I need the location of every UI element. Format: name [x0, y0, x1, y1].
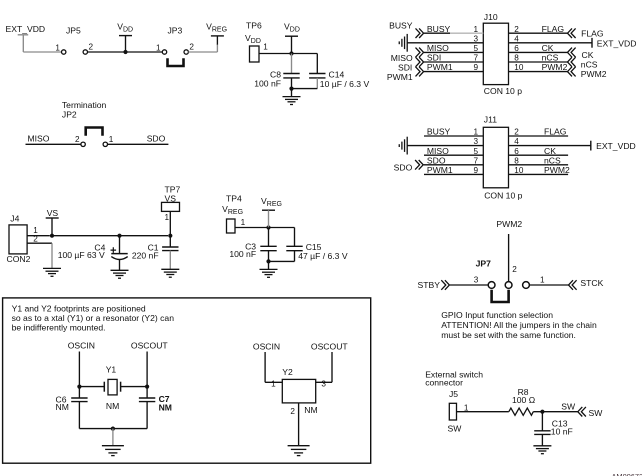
svg-text:6: 6 [514, 147, 519, 156]
svg-text:TP4: TP4 [226, 193, 242, 203]
svg-text:EXT_VDD: EXT_VDD [597, 38, 637, 48]
svg-text:BUSY: BUSY [389, 21, 413, 31]
svg-text:100 nF: 100 nF [229, 249, 256, 259]
svg-text:2: 2 [189, 43, 194, 52]
svg-text:PWM2: PWM2 [544, 165, 570, 175]
svg-text:47 µF / 6.3 V: 47 µF / 6.3 V [298, 251, 348, 261]
svg-text:Y1: Y1 [106, 364, 117, 374]
svg-text:STBY: STBY [418, 280, 441, 290]
svg-text:3: 3 [473, 137, 478, 146]
svg-text:JP7: JP7 [476, 258, 492, 268]
svg-text:EXT_VDD: EXT_VDD [6, 24, 46, 34]
svg-text:FLAG: FLAG [542, 24, 565, 34]
svg-text:2: 2 [89, 43, 94, 52]
svg-text:1: 1 [164, 213, 169, 222]
svg-text:JP2: JP2 [62, 109, 77, 119]
svg-text:CON 10 p: CON 10 p [484, 86, 522, 96]
svg-text:J11: J11 [484, 115, 497, 125]
svg-text:4: 4 [514, 137, 519, 146]
svg-text:nCS: nCS [544, 155, 561, 165]
svg-text:5: 5 [473, 44, 478, 53]
svg-text:FLAG: FLAG [544, 127, 567, 137]
svg-text:1: 1 [241, 218, 246, 227]
svg-text:3: 3 [474, 276, 479, 285]
svg-text:9: 9 [473, 63, 478, 72]
svg-text:connector: connector [425, 378, 463, 388]
svg-text:8: 8 [514, 156, 519, 165]
svg-text:PWM2: PWM2 [542, 62, 568, 72]
svg-text:CON 10 p: CON 10 p [484, 190, 522, 200]
svg-text:1: 1 [109, 135, 114, 144]
svg-text:2: 2 [290, 407, 295, 416]
svg-text:OSCOUT: OSCOUT [311, 341, 349, 351]
svg-text:SDI: SDI [427, 53, 441, 63]
svg-text:OSCOUT: OSCOUT [131, 341, 169, 351]
svg-text:1: 1 [473, 25, 478, 34]
svg-text:2: 2 [514, 128, 519, 137]
svg-text:be indifferently mounted.: be indifferently mounted. [12, 322, 106, 332]
svg-text:100 µF 63 V: 100 µF 63 V [58, 250, 105, 260]
svg-text:JP5: JP5 [66, 26, 81, 36]
svg-text:SW: SW [561, 402, 576, 412]
svg-text:CK: CK [542, 43, 554, 53]
svg-text:4: 4 [514, 34, 519, 43]
svg-text:J4: J4 [10, 214, 19, 224]
svg-text:10 µF / 6.3 V: 10 µF / 6.3 V [320, 79, 370, 89]
svg-text:FLAG: FLAG [581, 28, 604, 38]
svg-text:8: 8 [514, 54, 519, 63]
svg-text:6: 6 [514, 44, 519, 53]
svg-text:3: 3 [321, 379, 326, 388]
svg-text:REG: REG [267, 201, 282, 208]
svg-text:1: 1 [156, 43, 161, 52]
svg-text:10 nF: 10 nF [551, 426, 573, 436]
svg-text:REG: REG [212, 26, 227, 33]
svg-text:220 nF: 220 nF [132, 250, 159, 260]
svg-text:3: 3 [473, 34, 478, 43]
svg-text:SW: SW [448, 424, 463, 434]
svg-text:STCK: STCK [580, 278, 603, 288]
svg-text:J5: J5 [449, 389, 458, 399]
svg-text:100 nF: 100 nF [254, 78, 281, 88]
svg-text:DD: DD [290, 26, 300, 33]
svg-text:NM: NM [106, 401, 119, 411]
svg-text:PWM2: PWM2 [496, 219, 522, 229]
svg-text:SDO: SDO [147, 133, 166, 143]
svg-text:MISO: MISO [28, 133, 50, 143]
svg-text:DD: DD [123, 26, 133, 33]
svg-text:DD: DD [251, 38, 261, 45]
svg-text:SDO: SDO [427, 155, 446, 165]
svg-text:OSCIN: OSCIN [68, 341, 95, 351]
svg-text:TP6: TP6 [246, 21, 262, 31]
svg-text:SDO: SDO [394, 162, 413, 172]
svg-text:2: 2 [75, 135, 80, 144]
svg-text:PWM2: PWM2 [581, 69, 607, 79]
svg-text:CK: CK [544, 146, 556, 156]
svg-text:nCS: nCS [542, 53, 559, 63]
svg-text:MISO: MISO [427, 43, 449, 53]
svg-text:EXT_VDD: EXT_VDD [596, 141, 636, 151]
svg-text:PWM1: PWM1 [427, 165, 453, 175]
svg-text:BUSY: BUSY [427, 127, 451, 137]
svg-text:NM: NM [159, 403, 172, 413]
svg-text:ATTENTION! All the jumpers in: ATTENTION! All the jumpers in the chain [441, 320, 597, 330]
svg-text:REG: REG [228, 209, 243, 216]
svg-text:10: 10 [514, 63, 524, 72]
svg-text:5: 5 [473, 147, 478, 156]
svg-text:1: 1 [464, 403, 469, 412]
svg-text:BUSY: BUSY [427, 24, 451, 34]
svg-text:PWM1: PWM1 [387, 72, 413, 82]
svg-text:nCS: nCS [581, 59, 598, 69]
svg-text:100 Ω: 100 Ω [512, 395, 536, 405]
svg-text:10: 10 [514, 166, 524, 175]
svg-text:GPIO Input function selection: GPIO Input function selection [441, 310, 553, 320]
svg-text:CON2: CON2 [7, 254, 31, 264]
svg-text:CK: CK [582, 50, 594, 60]
svg-text:must be set with the same func: must be set with the same function. [441, 330, 576, 340]
svg-text:SW: SW [589, 408, 604, 418]
svg-text:PWM1: PWM1 [427, 62, 453, 72]
svg-text:2: 2 [512, 265, 517, 274]
svg-text:2: 2 [514, 25, 519, 34]
svg-text:1: 1 [473, 128, 478, 137]
svg-text:NM: NM [304, 405, 317, 415]
svg-text:OSCIN: OSCIN [253, 341, 280, 351]
svg-text:1: 1 [263, 42, 268, 51]
svg-text:1: 1 [55, 43, 60, 52]
svg-text:1: 1 [540, 276, 545, 285]
svg-text:7: 7 [473, 156, 478, 165]
svg-text:J10: J10 [484, 12, 498, 22]
svg-text:NM: NM [56, 402, 69, 412]
svg-text:JP3: JP3 [168, 26, 183, 36]
svg-text:Y2: Y2 [282, 367, 293, 377]
svg-text:1: 1 [271, 379, 276, 388]
svg-text:7: 7 [473, 54, 478, 63]
svg-text:9: 9 [473, 166, 478, 175]
svg-text:MISO: MISO [427, 146, 449, 156]
svg-text:AM09672: AM09672 [612, 472, 642, 476]
svg-text:VS: VS [47, 208, 59, 218]
svg-text:MISO: MISO [391, 53, 413, 63]
